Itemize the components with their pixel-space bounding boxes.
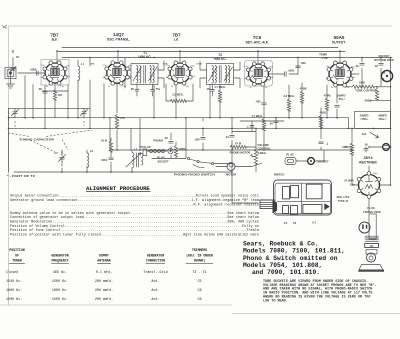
svg-text:PHONO: PHONO xyxy=(153,139,163,143)
svg-text:LOW TO READ.: LOW TO READ. xyxy=(263,300,288,304)
resistor 4.7 MEG xyxy=(214,85,226,102)
svg-text:*456 KC.: *456 KC. xyxy=(213,57,226,61)
svg-text:1600 Kc.: 1600 Kc. xyxy=(6,289,22,293)
resistor 450 ohm xyxy=(319,110,327,127)
svg-text:OSC.-TRANSL.: OSC.-TRANSL. xyxy=(107,38,131,42)
svg-text:BOTTOM VIEW: BOTTOM VIEW xyxy=(374,58,394,62)
electrolytic can 40 MFD 150v a and b xyxy=(355,112,391,129)
tube V4 7C6 DET-AVC-A.F. xyxy=(244,61,274,90)
svg-text:4.7M↓: 4.7M↓ xyxy=(321,56,328,60)
capacitor .009 xyxy=(296,61,306,68)
svg-text:47A: 47A xyxy=(120,116,125,120)
tuning capacitor osc section xyxy=(80,108,87,117)
resistor 3.3 MEG xyxy=(283,94,295,111)
svg-text:T2 - T1: T2 - T1 xyxy=(192,271,206,275)
svg-text:.005: .005 xyxy=(194,138,200,142)
svg-text:SHOWN): SHOWN) xyxy=(194,258,206,262)
capacitor .005 xyxy=(194,138,205,142)
svg-text:35Y4: 35Y4 xyxy=(363,155,373,160)
capacitor .1 coupling xyxy=(246,125,254,129)
trimmer C7 xyxy=(54,151,65,167)
wire grid return line xyxy=(9,108,91,117)
svg-text:Ant.: Ant. xyxy=(151,280,159,284)
svg-text:Closed: Closed xyxy=(6,270,18,275)
tube V1 7B7 R.F. xyxy=(41,60,71,89)
svg-text:200 mmfd.: 200 mmfd. xyxy=(95,297,113,302)
tuning capacitor front section xyxy=(11,108,18,117)
svg-text:1500 Kc.: 1500 Kc. xyxy=(52,298,68,302)
line cord coil xyxy=(365,236,379,241)
svg-text:.05: .05 xyxy=(130,87,134,91)
capacitor 20 MFD 25v xyxy=(335,93,346,107)
svg-text:* - PART OF T2: * - PART OF T2 xyxy=(7,174,36,178)
svg-text:PLUG: PLUG xyxy=(367,206,374,210)
svg-text:Generator Modulation..........: Generator Modulation....................… xyxy=(10,220,259,225)
volume control 2 MEG xyxy=(251,143,271,164)
AC plug front view xyxy=(359,206,381,239)
capacitor .0008 xyxy=(30,68,38,76)
svg-text:Dummy antenna value to be in s: Dummy antenna value to be in series with… xyxy=(10,211,260,216)
svg-text:C4: C4 xyxy=(312,221,316,225)
svg-text:150v.=: 150v.= xyxy=(378,117,387,121)
svg-text:TYPE 47: TYPE 47 xyxy=(338,199,349,203)
dial lamp drawing xyxy=(359,250,385,272)
svg-text:0.1 mfd.: 0.1 mfd. xyxy=(96,270,112,275)
svg-text:L3: L3 xyxy=(134,148,138,152)
svg-text:RECTIFIER: RECTIFIER xyxy=(359,161,377,165)
svg-text:14Q7: 14Q7 xyxy=(113,32,125,37)
capacitor .05 T1 secondary xyxy=(130,85,139,97)
svg-text:=150v.: =150v. xyxy=(360,117,368,121)
svg-text:SOCKET: SOCKET xyxy=(378,54,390,58)
svg-text:Output meter connection.......: Output meter connection.................… xyxy=(10,194,259,199)
tone control 100K xyxy=(352,81,377,93)
svg-text:7B7: 7B7 xyxy=(50,33,59,38)
svg-text:Sears, Roebuck & Co.: Sears, Roebuck & Co. xyxy=(243,240,319,247)
svg-text:40MFD: 40MFD xyxy=(378,113,387,117)
svg-text:L2: L2 xyxy=(90,149,94,153)
svg-text:200 mmfd.: 200 mmfd. xyxy=(95,279,113,284)
phono-radio switch xyxy=(174,157,215,176)
svg-text:200 mmfd.: 200 mmfd. xyxy=(95,288,113,293)
svg-text:465 Kc.: 465 Kc. xyxy=(53,271,67,275)
resistor 4.7 MEG AF xyxy=(251,114,265,131)
svg-text:Phono & Switch omitted on: Phono & Switch omitted on xyxy=(243,255,338,262)
svg-text:Connection of generator output: Connection of generator output lead.....… xyxy=(10,215,260,220)
coil L2 xyxy=(87,149,94,167)
svg-text:.0008: .0008 xyxy=(30,68,37,72)
svg-text:Models 7080, 7100, 101.811,: Models 7080, 7100, 101.811, xyxy=(243,248,345,255)
svg-text:TONE CONTROL: TONE CONTROL xyxy=(355,88,377,92)
svg-text:50A5: 50A5 xyxy=(334,35,345,40)
capacitor .006 xyxy=(269,121,278,126)
svg-text:Transl.-Grid: Transl.-Grid xyxy=(143,270,167,275)
svg-text:4.7 MEG.: 4.7 MEG. xyxy=(251,114,263,118)
svg-text:Position of Volume Control....: Position of Volume Control..............… xyxy=(10,224,259,229)
svg-text:.009: .009 xyxy=(300,61,306,65)
svg-text:PLUG: PLUG xyxy=(157,156,164,160)
svg-text:TRMR: TRMR xyxy=(319,53,327,57)
svg-text:R.F.: R.F. xyxy=(52,38,58,42)
capacitor .005 T2 secondary xyxy=(206,85,214,97)
tube V2 14Q7 OSC-TRANSL xyxy=(103,61,133,88)
svg-text:1600 Kc.: 1600 Kc. xyxy=(52,289,68,293)
tuning gang assembly drawing xyxy=(260,180,332,225)
svg-text:1540 Kc.: 1540 Kc. xyxy=(6,280,22,284)
capacitor .02 tone a xyxy=(355,64,364,69)
svg-text:POSITION: POSITION xyxy=(9,248,24,252)
resistor 600 ohm xyxy=(365,89,379,103)
capacitor .005 7C6 xyxy=(255,100,266,105)
svg-text:100K: 100K xyxy=(359,81,365,85)
IF transformer T2 456 KC xyxy=(200,53,240,88)
svg-text:.005: .005 xyxy=(255,100,261,104)
svg-text:25: 25 xyxy=(345,145,348,149)
svg-text:Ant.: Ant. xyxy=(151,298,159,302)
capacitor .1 xyxy=(319,142,329,146)
svg-text:C6: C6 xyxy=(197,298,201,302)
resistor 47A xyxy=(115,115,125,129)
svg-text:OUTPUT: OUTPUT xyxy=(332,41,346,45)
svg-text:.05: .05 xyxy=(164,136,168,140)
svg-text:FRONG VIEW: FRONG VIEW xyxy=(363,210,381,214)
svg-text:7C6: 7C6 xyxy=(253,35,262,40)
svg-text:14A: 14A xyxy=(362,132,367,136)
capacitor .01 xyxy=(225,135,234,139)
svg-text:1500 Kc.: 1500 Kc. xyxy=(52,280,68,284)
svg-text:C5: C5 xyxy=(284,221,288,225)
phono motor xyxy=(226,151,284,177)
phono pickup plug and socket xyxy=(139,139,173,164)
resistor 1 MEG xyxy=(53,90,62,100)
oscillator coil L3 with trimmer C8 xyxy=(126,148,143,168)
svg-text:..............................: ........................................… xyxy=(10,202,259,207)
svg-text:5MB: 5MB xyxy=(90,64,95,66)
svg-text:.05: .05 xyxy=(38,87,42,91)
svg-text:2.2 MEG.: 2.2 MEG. xyxy=(172,93,184,97)
svg-text:PICK-UP: PICK-UP xyxy=(139,145,150,149)
svg-text:DET.-AVC.-A.F.: DET.-AVC.-A.F. xyxy=(246,41,269,45)
svg-text:PHONO-MOTOR: PHONO-MOTOR xyxy=(230,151,251,155)
svg-text:22 M: 22 M xyxy=(101,139,108,143)
resistor 25 ohm xyxy=(345,143,354,155)
capacitor .05 phono xyxy=(164,136,173,143)
svg-text:Models 7054, 101.808,: Models 7054, 101.808, xyxy=(243,262,322,269)
svg-text:ANTENNA: ANTENNA xyxy=(97,258,110,262)
svg-text:FREQUENCY: FREQUENCY xyxy=(51,258,68,262)
capacitor .05 line xyxy=(364,143,368,153)
svg-text:TRIMMERS: TRIMMERS xyxy=(192,248,207,252)
svg-text:.05: .05 xyxy=(364,143,368,147)
svg-text:PHONO-RADIO SWITCH: PHONO-RADIO SWITCH xyxy=(174,173,215,177)
wire: main buses and interconnections xyxy=(9,48,393,214)
svg-text:.05: .05 xyxy=(206,87,210,91)
svg-text:600Ω: 600Ω xyxy=(365,99,372,103)
fuse resistor 14 ohm xyxy=(362,132,379,138)
cathode bypass tube V1 xyxy=(38,87,47,93)
svg-text:75v: 75v xyxy=(156,87,161,91)
capacitor .0001 AVC xyxy=(285,69,295,77)
svg-text:PLUG: PLUG xyxy=(286,153,293,157)
pilot lamp xyxy=(383,144,390,151)
svg-text:C6: C6 xyxy=(197,289,201,293)
trimmer capacitor 20 xyxy=(10,55,19,72)
svg-text:L1: L1 xyxy=(81,62,85,66)
svg-text:MOTOR: MOTOR xyxy=(226,173,236,177)
ground xyxy=(7,84,15,88)
resistor 180M xyxy=(174,146,186,157)
svg-text:GENERATOR: GENERATOR xyxy=(51,253,68,257)
svg-text:.0001: .0001 xyxy=(288,69,295,73)
tube V3 7B7 I.F. xyxy=(166,61,196,88)
wire junction dots xyxy=(8,50,392,186)
svg-text:C6: C6 xyxy=(293,221,297,225)
svg-text:.02: .02 xyxy=(374,64,378,68)
svg-text:C5: C5 xyxy=(197,280,201,284)
resistor 22M xyxy=(101,139,113,153)
socket bottom view xyxy=(374,54,394,82)
svg-text:I.F.: I.F. xyxy=(174,38,178,42)
svg-text:101: 101 xyxy=(370,245,375,248)
svg-text:1500 Kc.: 1500 Kc. xyxy=(6,298,22,302)
svg-text:17MB: 17MB xyxy=(196,64,202,66)
tube V6 35Y4 rectifier xyxy=(357,172,381,199)
resistor 470M grid xyxy=(324,94,331,111)
svg-text:470M: 470M xyxy=(300,86,307,90)
resistor 47M xyxy=(230,142,246,149)
tuning capacitor dashed outline and label xyxy=(8,121,92,137)
svg-text:4.7 MEG.: 4.7 MEG. xyxy=(214,85,226,89)
capacitor .02 tone b xyxy=(374,64,383,69)
svg-text:20: 20 xyxy=(16,55,19,59)
svg-text:Position of Tone Control......: Position of Tone Control................… xyxy=(10,228,259,233)
svg-text:180M: 180M xyxy=(179,147,186,151)
svg-text:TUNING CAPACITOR: TUNING CAPACITOR xyxy=(19,138,55,142)
svg-text:25v.=: 25v.= xyxy=(339,97,346,101)
svg-text:47 M: 47 M xyxy=(235,142,242,146)
svg-text:.01: .01 xyxy=(225,135,229,139)
svg-text:GENERATOR: GENERATOR xyxy=(147,253,164,257)
svg-text:57.5MA: 57.5MA xyxy=(344,179,353,183)
motor socket xyxy=(308,158,329,165)
capacitor .002 T1 xyxy=(151,85,161,97)
svg-text:3.3 MEG.: 3.3 MEG. xyxy=(283,94,295,98)
svg-text:SOCKET: SOCKET xyxy=(317,160,329,164)
svg-text:7B7: 7B7 xyxy=(172,33,181,38)
svg-text:CONNECTION: CONNECTION xyxy=(146,258,165,262)
antenna xyxy=(5,68,16,79)
svg-text:470M: 470M xyxy=(324,94,331,98)
svg-text:CONTROL: CONTROL xyxy=(257,147,271,151)
svg-text:and 7090, 101.810.: and 7090, 101.810. xyxy=(252,269,320,276)
svg-text:Position of pointer with tuner: Position of pointer with tuner fully clo… xyxy=(10,232,259,237)
resistor 2.2 MEG xyxy=(170,93,186,103)
svg-text:TUNER: TUNER xyxy=(12,258,22,262)
svg-text:VOLUME: VOLUME xyxy=(257,143,269,147)
svg-text:.0001: .0001 xyxy=(101,158,108,162)
svg-text:20MFD: 20MFD xyxy=(337,93,346,97)
svg-text:.12v: .12v xyxy=(349,183,355,187)
svg-text:SOCKET: SOCKET xyxy=(157,159,169,163)
svg-text:Generator ground lead connecti: Generator ground lead connection........… xyxy=(10,198,259,203)
svg-text:DUMMY: DUMMY xyxy=(99,253,109,257)
svg-text:.02: .02 xyxy=(355,64,359,68)
svg-text:C7: C7 xyxy=(54,151,58,155)
fuse box 101 xyxy=(365,244,379,248)
coil L1 xyxy=(78,62,85,80)
svg-text:DIAL LITE: DIAL LITE xyxy=(337,195,350,199)
svg-text:2 MEG.: 2 MEG. xyxy=(257,151,266,155)
IF transformer T1 456 KC xyxy=(125,51,164,88)
svg-text:.05: .05 xyxy=(269,122,273,126)
svg-text:SWITCH: SWITCH xyxy=(274,173,285,177)
capacitor .0001 osc xyxy=(101,158,114,162)
svg-text:(ADJ. IN ORDER: (ADJ. IN ORDER xyxy=(186,253,213,257)
motor plug xyxy=(285,153,296,165)
resistor 470M xyxy=(300,86,307,103)
svg-text:*456 KC.: *456 KC. xyxy=(138,55,151,59)
svg-text:Ant.: Ant. xyxy=(151,289,159,293)
svg-text:40MFD: 40MFD xyxy=(360,113,369,117)
tube V5 50A5 OUTPUT xyxy=(326,61,356,89)
svg-text:450Ω: 450Ω xyxy=(320,110,327,114)
svg-text:OF: OF xyxy=(15,253,19,257)
